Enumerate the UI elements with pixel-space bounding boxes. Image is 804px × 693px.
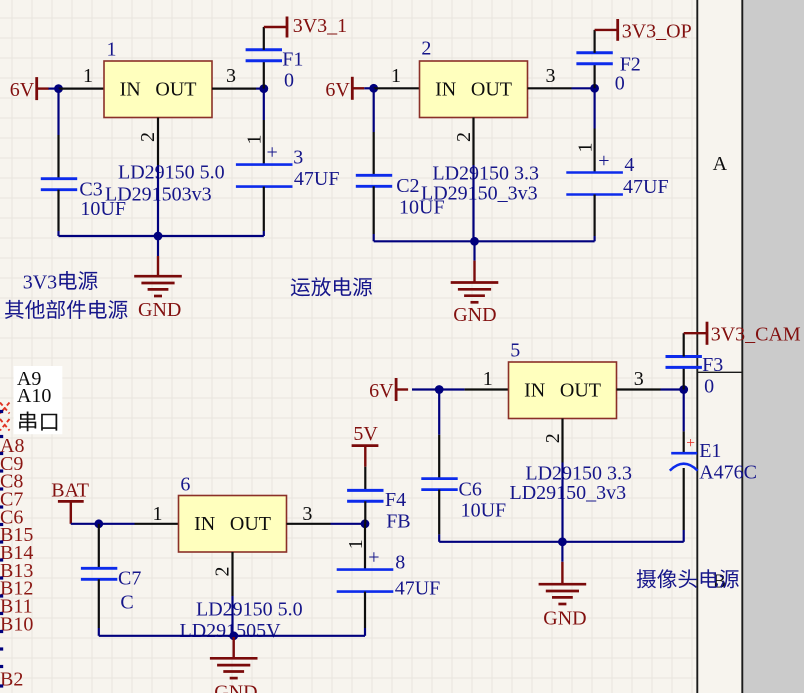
svg-text:+: + bbox=[267, 141, 278, 163]
wire C6 to rail bbox=[438, 490, 440, 535]
svg-text:1: 1 bbox=[345, 539, 367, 549]
node GND junction c5 bbox=[558, 537, 567, 546]
wire bottom rail c6 bbox=[99, 635, 365, 637]
svg-text:2: 2 bbox=[421, 38, 431, 60]
tooltip text serial port bbox=[19, 411, 57, 431]
svg-text:BAT: BAT bbox=[51, 479, 89, 501]
wire pin3 c6 bbox=[287, 523, 331, 525]
node GND junction c2 bbox=[470, 237, 479, 246]
wire stub left edge bbox=[0, 558, 3, 561]
fuse F2 pin bbox=[593, 64, 595, 89]
wire stub left edge bbox=[0, 594, 3, 597]
svg-text:GND: GND bbox=[138, 299, 181, 321]
wire C3 branch bbox=[57, 89, 59, 135]
svg-text:IN: IN bbox=[435, 79, 456, 101]
wire to capacitor 47UF c2 bbox=[593, 88, 595, 128]
power port GND bbox=[210, 637, 258, 693]
svg-text:LD29150_3v3: LD29150_3v3 bbox=[510, 482, 627, 504]
fuse F4 pin bottom bbox=[364, 501, 366, 524]
node 6V/C6 junction bbox=[435, 385, 444, 394]
wire bottom rail bbox=[59, 235, 264, 237]
fuse F4 pin top bbox=[364, 467, 366, 491]
svg-text:F1: F1 bbox=[282, 49, 303, 71]
label other parts power bbox=[5, 300, 128, 319]
svg-text:3: 3 bbox=[546, 65, 556, 87]
capacitor C2 10UF bbox=[356, 175, 445, 219]
svg-text:OUT: OUT bbox=[471, 79, 512, 101]
svg-text:6V: 6V bbox=[325, 79, 350, 101]
wire stub left edge bbox=[0, 647, 3, 650]
svg-text:LD29150 5.0: LD29150 5.0 bbox=[118, 162, 225, 184]
svg-text:1: 1 bbox=[153, 503, 163, 525]
svg-text:2: 2 bbox=[212, 567, 234, 577]
svg-text:C: C bbox=[120, 591, 133, 613]
svg-text:OUT: OUT bbox=[155, 79, 196, 101]
pin 2 wire c6 bbox=[231, 552, 233, 596]
svg-text:1: 1 bbox=[243, 135, 265, 145]
power port GND bbox=[539, 562, 587, 630]
wire pin3 c2 bbox=[528, 87, 572, 89]
svg-text:IN: IN bbox=[194, 513, 215, 535]
wire 6V to pin1 bbox=[49, 87, 59, 89]
capacitor 47UF polarized bbox=[236, 147, 340, 190]
svg-text:3V3: 3V3 bbox=[23, 271, 57, 293]
svg-text:+: + bbox=[686, 435, 695, 452]
wire 6V to pin1 c5 bbox=[412, 388, 439, 390]
wire stub left edge bbox=[0, 469, 3, 472]
svg-text:3V3_CAM: 3V3_CAM bbox=[711, 323, 801, 345]
wire pin1 c2 bbox=[374, 87, 420, 89]
capacitor 8 47UF polarized bbox=[337, 552, 441, 600]
wire C2 branch bbox=[373, 88, 375, 132]
svg-text:1: 1 bbox=[483, 368, 493, 390]
svg-text:A: A bbox=[713, 153, 728, 175]
node 6V/C2 junction bbox=[369, 84, 378, 93]
wire F3 to 3V3_CAM bbox=[683, 333, 685, 356]
capacitor 4 47UF polarized bbox=[566, 154, 668, 198]
svg-text:3V3_1: 3V3_1 bbox=[293, 15, 347, 37]
wire stub left edge bbox=[0, 523, 3, 526]
svg-text:0: 0 bbox=[704, 375, 714, 397]
wire 6V to pin1 c2 bbox=[364, 87, 373, 89]
wire 47UF to rail c2 bbox=[593, 195, 595, 237]
node BAT/C7 junction bbox=[94, 519, 103, 528]
fuse F3 pin bbox=[683, 367, 685, 389]
wire pin3 bbox=[212, 87, 256, 89]
svg-text:F3: F3 bbox=[702, 354, 723, 376]
svg-text:OUT: OUT bbox=[560, 380, 601, 402]
no-ERC marker X1 bbox=[0, 403, 10, 414]
svg-text:2: 2 bbox=[453, 132, 475, 142]
svg-text:LD29150 5.0: LD29150 5.0 bbox=[196, 598, 303, 620]
wire BAT to junction bbox=[71, 523, 99, 525]
regulator U5 bbox=[509, 362, 617, 419]
wire stub left edge bbox=[0, 630, 3, 633]
svg-text:E1: E1 bbox=[699, 440, 721, 462]
svg-text:F4: F4 bbox=[385, 489, 406, 511]
svg-text:C2: C2 bbox=[396, 175, 419, 197]
pin 2 wire c5 bbox=[561, 419, 563, 463]
svg-text:3: 3 bbox=[226, 65, 236, 87]
regulator U1 bbox=[104, 61, 212, 118]
wire 47UF to rail c6 bbox=[364, 592, 366, 628]
wire stub left edge bbox=[0, 684, 3, 687]
svg-text:GND: GND bbox=[214, 682, 257, 693]
svg-text:10UF: 10UF bbox=[461, 500, 507, 522]
node OUT/F3 junction bbox=[679, 385, 688, 394]
power port 3V3_1 bbox=[264, 15, 347, 38]
svg-text:FB: FB bbox=[386, 511, 410, 533]
svg-text:6V: 6V bbox=[369, 380, 394, 402]
label opamp power bbox=[291, 277, 372, 296]
svg-text:A10: A10 bbox=[17, 385, 51, 407]
pin 2 wire c2 bbox=[472, 118, 474, 166]
power port 5V bbox=[352, 423, 379, 467]
fuse F2 0 bbox=[576, 53, 640, 95]
wire stub left edge bbox=[0, 410, 3, 413]
regulator U6 bbox=[179, 496, 287, 553]
wire pin1 bbox=[59, 87, 105, 89]
wire stub left edge bbox=[0, 505, 3, 508]
wire stub left edge bbox=[0, 665, 3, 668]
wire E1 to rail bbox=[683, 468, 685, 530]
svg-text:IN: IN bbox=[120, 79, 141, 101]
wire to capacitor E1 bbox=[683, 390, 685, 432]
tooltip white box bbox=[14, 366, 63, 434]
wire stub left edge bbox=[0, 540, 3, 543]
wire F2 to 3V3_OP bbox=[593, 30, 595, 53]
power port 6V bbox=[10, 77, 49, 101]
fuse F1 pin bbox=[263, 61, 265, 89]
label camera power bbox=[637, 569, 739, 588]
wire pin1 c5 bbox=[439, 388, 464, 390]
svg-text:1: 1 bbox=[107, 39, 117, 61]
capacitor E1 A476C polarized bbox=[670, 440, 757, 484]
svg-text:B2: B2 bbox=[0, 668, 23, 690]
svg-text:2: 2 bbox=[137, 132, 159, 142]
power port 6V bbox=[369, 378, 408, 402]
wire GND stub c5 bbox=[561, 542, 563, 562]
svg-text:47UF: 47UF bbox=[294, 168, 340, 190]
svg-text:5: 5 bbox=[510, 340, 520, 362]
wire bottom rail c2 bbox=[374, 240, 595, 242]
power port 3V3_OP bbox=[595, 19, 692, 43]
no-ERC marker X2 bbox=[0, 419, 10, 431]
wire stub left edge bbox=[0, 576, 3, 579]
wire C7 branch bbox=[98, 524, 100, 569]
node OUT/F2 junction bbox=[590, 84, 599, 93]
svg-text:C7: C7 bbox=[118, 567, 141, 589]
fuse F4 FB bbox=[347, 489, 411, 533]
wire pin1 c6 bbox=[99, 523, 135, 525]
regulator U2 bbox=[420, 61, 528, 118]
node OUT/F4 junction bbox=[361, 519, 370, 528]
svg-text:8: 8 bbox=[395, 552, 405, 574]
svg-text:6V: 6V bbox=[10, 79, 35, 101]
wire F1 to 3V3_1 bbox=[263, 27, 265, 50]
svg-text:C6: C6 bbox=[459, 478, 482, 500]
svg-text:10UF: 10UF bbox=[80, 198, 126, 220]
wire stub left edge bbox=[0, 435, 3, 438]
svg-text:GND: GND bbox=[543, 608, 586, 630]
node OUT/F1 junction bbox=[259, 84, 268, 93]
wire bottom rail c5 bbox=[439, 541, 684, 543]
svg-text:3: 3 bbox=[302, 503, 312, 525]
wire pin3 c5 bbox=[617, 388, 661, 390]
svg-text:47UF: 47UF bbox=[395, 578, 441, 600]
svg-text:1: 1 bbox=[83, 65, 93, 87]
wire GND stub c2 bbox=[473, 241, 475, 260]
svg-text:4: 4 bbox=[624, 154, 634, 176]
svg-text:5V: 5V bbox=[353, 423, 378, 445]
svg-text:+: + bbox=[368, 547, 379, 569]
svg-text:3V3_OP: 3V3_OP bbox=[622, 21, 692, 43]
fuse F3 0 bbox=[666, 354, 724, 398]
wire stub left edge bbox=[0, 452, 3, 455]
wire 47UF to rail bbox=[263, 187, 265, 231]
svg-text:3: 3 bbox=[293, 147, 303, 169]
wire C6 branch bbox=[438, 390, 440, 435]
power port GND bbox=[134, 256, 182, 321]
svg-text:10UF: 10UF bbox=[399, 197, 445, 219]
wire to capacitor 47UF bbox=[263, 89, 265, 120]
power port 3V3_CAM bbox=[684, 322, 801, 346]
wire stub left edge bbox=[0, 487, 3, 490]
svg-text:0: 0 bbox=[284, 70, 294, 92]
svg-text:+: + bbox=[598, 150, 609, 172]
capacitor C6 10UF bbox=[421, 478, 506, 521]
power port BAT bbox=[51, 479, 89, 524]
node 6V/C3 junction bbox=[54, 84, 63, 93]
power port 6V bbox=[325, 77, 364, 101]
capacitor C3 10UF bbox=[41, 179, 126, 221]
svg-text:0: 0 bbox=[615, 72, 625, 94]
svg-text:LD291505V: LD291505V bbox=[180, 620, 282, 642]
svg-text:1: 1 bbox=[574, 143, 596, 153]
svg-text:6: 6 bbox=[180, 474, 190, 496]
svg-text:OUT: OUT bbox=[230, 513, 271, 535]
node GND junction c6 bbox=[229, 631, 238, 640]
svg-text:1: 1 bbox=[391, 65, 401, 87]
svg-text:LD29150 3.3: LD29150 3.3 bbox=[432, 163, 539, 185]
svg-text:47UF: 47UF bbox=[623, 176, 669, 198]
wire C3 to rail bbox=[57, 190, 59, 231]
svg-text:IN: IN bbox=[524, 380, 545, 402]
pin 2 wire bbox=[157, 118, 159, 166]
wire C2 to rail bbox=[373, 186, 375, 234]
node GND junction bbox=[154, 232, 163, 241]
wire to capacitor 47UF c6 bbox=[364, 524, 366, 570]
svg-text:3: 3 bbox=[634, 368, 644, 390]
svg-text:GND: GND bbox=[453, 304, 496, 326]
wire stub left edge bbox=[0, 612, 3, 615]
svg-text:A476C: A476C bbox=[699, 462, 757, 484]
power port GND bbox=[451, 261, 499, 326]
fuse F1 0 bbox=[246, 49, 304, 92]
wire GND stub bbox=[157, 236, 159, 256]
svg-text:B10: B10 bbox=[0, 613, 33, 635]
capacitor C7 C bbox=[81, 567, 141, 613]
wire C7 to rail bbox=[98, 579, 100, 628]
svg-text:2: 2 bbox=[542, 433, 564, 443]
